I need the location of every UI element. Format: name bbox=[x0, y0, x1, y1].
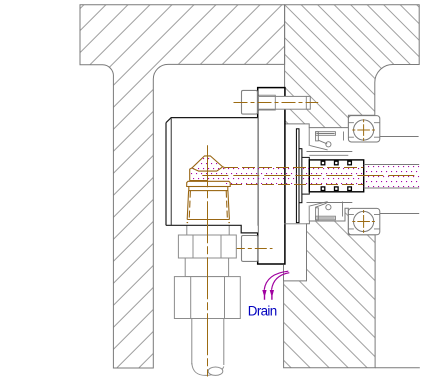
svg-text:Drain: Drain bbox=[248, 304, 277, 319]
bolt M1 shank bbox=[258, 96, 310, 109]
housing block top-left (hatched) bbox=[80, 5, 285, 368]
pipe bbox=[192, 319, 224, 366]
spline teeth bbox=[321, 161, 351, 190]
probe channel lines bbox=[202, 168, 419, 185]
neck bbox=[185, 258, 228, 277]
bolt M1 centerline bbox=[234, 102, 319, 104]
shaft collar bbox=[302, 157, 309, 194]
bolt M2 centerline bbox=[233, 248, 273, 250]
bearing lower centermarks bbox=[352, 210, 375, 233]
shaft end plate bar2 bbox=[299, 149, 302, 203]
housing block bottom-right (hatched) bbox=[284, 208, 376, 367]
shaft end plate bar1 bbox=[296, 129, 299, 223]
bore lines right of bearings bbox=[380, 136, 419, 138]
bearing lower race lines bbox=[348, 214, 379, 229]
bearing upper race lines bbox=[348, 123, 379, 138]
hex nut 1 bbox=[178, 235, 236, 258]
seal lower bbox=[309, 202, 342, 222]
probe dotted region: channel bbox=[225, 167, 297, 184]
pipe bore ellipse bbox=[208, 367, 223, 375]
bearing upper ball bbox=[354, 120, 374, 140]
bearing lower ball bbox=[354, 211, 374, 231]
vertical centerline bbox=[207, 145, 209, 376]
housing block top-right (hatched) bbox=[285, 5, 420, 128]
threaded fitting (brown) bbox=[187, 181, 231, 222]
bearing upper box bbox=[348, 116, 379, 142]
bearing upper centermarks bbox=[352, 119, 375, 141]
bolt M1 hole lines bbox=[258, 95, 306, 110]
probe dotted region: tip bbox=[190, 156, 225, 181]
bolt M2 head bbox=[242, 236, 258, 262]
seal upper bbox=[309, 128, 343, 150]
drain slot lines bbox=[283, 265, 285, 281]
floor line extension bbox=[375, 367, 420, 369]
bolt M1 head bbox=[242, 90, 258, 114]
fitting collar (gray) bbox=[187, 222, 229, 235]
probe dotted region: right band bbox=[364, 165, 420, 189]
body (sensor housing) bbox=[166, 118, 258, 226]
probe tip outline bbox=[190, 156, 225, 181]
drain arrows bbox=[264, 271, 289, 290]
gland flange bbox=[258, 88, 285, 264]
hex nut 2 bbox=[174, 277, 240, 319]
shaft bore lines bbox=[307, 151, 353, 153]
bearing lower box bbox=[348, 208, 379, 234]
spline sleeve bbox=[309, 160, 363, 192]
